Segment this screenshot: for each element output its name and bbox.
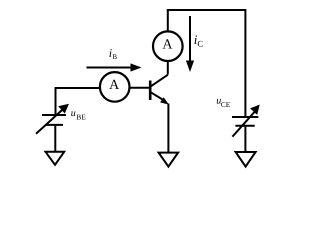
source UBE bottom bar — [46, 124, 63, 126]
source UBE adjust arrow — [36, 110, 63, 134]
wire left branch down to source UBE — [55, 87, 57, 114]
svg-text:C: C — [197, 39, 203, 49]
wire below source UCE to ground — [244, 126, 246, 152]
wire right branch down to source VCE — [244, 9, 246, 116]
transistor Q1 base bar — [149, 81, 152, 101]
wire top rail — [167, 9, 246, 11]
svg-text:B: B — [112, 53, 117, 61]
ground left — [46, 152, 65, 165]
source UCE top bar — [232, 116, 258, 118]
current arrow iB — [87, 67, 133, 69]
ground middle — [159, 153, 179, 167]
source UCE adjust arrow — [232, 110, 256, 137]
wire collector ammeter bottom to transistor — [167, 62, 169, 75]
svg-text:A: A — [109, 78, 120, 93]
transistor Q1 emitter arrowhead — [160, 97, 169, 104]
source UCE bottom bar — [235, 125, 254, 127]
transistor Q1 emitter line — [151, 92, 163, 99]
wire base right segment — [130, 87, 150, 89]
svg-text:CE: CE — [221, 100, 231, 109]
svg-text:A: A — [162, 37, 173, 52]
svg-text:BE: BE — [76, 113, 86, 122]
current arrow iC — [189, 16, 191, 61]
wire emitter down to ground — [167, 104, 169, 153]
wire base left segment — [56, 87, 100, 89]
wire collector ammeter top to top rail — [167, 10, 169, 31]
source UBE top bar — [42, 114, 66, 116]
ammeter A2 (collector) — [153, 31, 183, 61]
svg-text:u: u — [71, 108, 76, 119]
transistor Q1 collector line — [151, 75, 168, 87]
ground right — [236, 152, 256, 167]
wire below source UBE to ground — [54, 125, 56, 151]
ammeter A1 (base) — [100, 72, 130, 102]
